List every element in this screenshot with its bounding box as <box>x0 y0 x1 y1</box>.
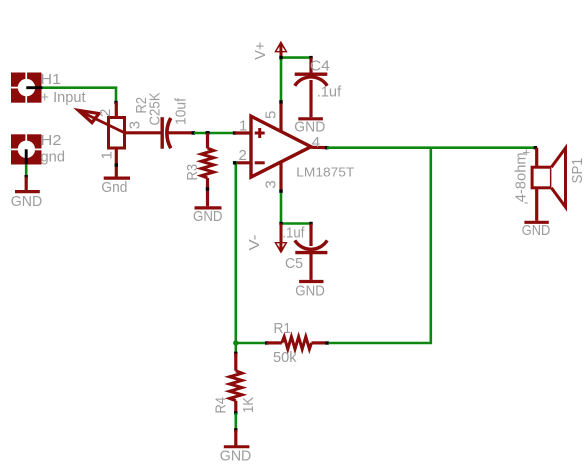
potentiometer R2 <box>78 103 162 177</box>
junction dot cap right <box>192 131 196 135</box>
junction dot pin5 <box>279 100 282 103</box>
junction dot C4 top <box>309 56 312 59</box>
capacitor C1 plates <box>162 117 192 149</box>
svg-text:C5: C5 <box>285 255 303 272</box>
svg-text:4: 4 <box>312 134 320 151</box>
svg-text:H2: H2 <box>41 132 62 149</box>
junction dot gnd stub <box>234 428 237 431</box>
junction dot V+ <box>279 56 282 59</box>
wire cap to R3 junction to op-amp pin1 <box>194 132 235 135</box>
feedback wire from output <box>329 148 431 343</box>
svg-text:GND: GND <box>220 448 252 465</box>
svg-text:10uf: 10uf <box>172 97 189 125</box>
ground symbol under pot (Gnd) <box>104 177 130 180</box>
junction dot op-amp pin1 <box>233 131 236 134</box>
svg-text:C4: C4 <box>310 57 330 74</box>
junction dot R4 bottom <box>234 411 237 414</box>
junction dot C5 top <box>309 222 312 225</box>
svg-text:2: 2 <box>97 109 114 117</box>
wire V+ to pin5 and C4 <box>281 58 311 102</box>
ground symbol under C5 <box>299 280 323 283</box>
junction dot R3 bottom <box>206 187 209 190</box>
wire R4 top <box>235 343 238 353</box>
ground symbol under R4 <box>224 430 250 447</box>
junction dot R1 right <box>325 341 329 344</box>
svg-text:.1uf: .1uf <box>317 84 342 101</box>
junction dot <box>25 175 28 178</box>
resistor R3 <box>201 133 213 206</box>
svg-text:R3: R3 <box>184 164 201 181</box>
svg-text:V-: V- <box>246 235 263 251</box>
speaker SP1 <box>532 148 565 221</box>
junction dot R1 left <box>265 341 269 344</box>
svg-text:Gnd: Gnd <box>101 179 127 196</box>
resistor R4 <box>230 353 242 413</box>
junction dot op-amp pin4 <box>325 146 328 149</box>
svg-text:+ Input: + Input <box>41 89 87 106</box>
ground symbol under R3 <box>195 206 222 209</box>
junction dot V- corner <box>279 222 282 225</box>
svg-text:1: 1 <box>239 118 247 135</box>
svg-text:50k: 50k <box>273 349 297 366</box>
svg-text:gnd: gnd <box>41 149 66 166</box>
ground symbol under H2 <box>15 177 40 192</box>
junction dot at R3 top <box>206 131 210 135</box>
connector H1 pad <box>11 73 42 103</box>
svg-text:1K: 1K <box>240 397 257 413</box>
junction dot R4 top <box>234 352 237 355</box>
svg-text:LM1875T: LM1875T <box>296 164 354 179</box>
svg-text:V+: V+ <box>252 42 269 60</box>
wire pin2 down to feedback node <box>233 163 265 343</box>
svg-text:GND: GND <box>522 222 551 239</box>
wire pin3 to V- and C5 <box>281 191 311 223</box>
junction dot pin3 <box>279 190 282 193</box>
svg-text:H1: H1 <box>41 71 62 88</box>
supply V+ symbol <box>274 41 287 58</box>
junction dot speaker top <box>534 146 537 149</box>
svg-text:.1uf: .1uf <box>282 225 305 242</box>
junction dot pot pin1 <box>115 163 118 166</box>
ground symbol under SP1 <box>524 221 548 224</box>
wire H1 to pot R2 <box>43 88 116 102</box>
svg-text:3: 3 <box>263 180 280 188</box>
svg-text:2: 2 <box>239 147 247 164</box>
wire H2 to ground <box>25 164 28 176</box>
svg-text:GND: GND <box>295 282 325 299</box>
svg-text:SP1: SP1 <box>569 158 586 184</box>
svg-text:1: 1 <box>99 151 116 159</box>
svg-text:4-8ohm: 4-8ohm <box>512 152 529 202</box>
svg-text:3: 3 <box>126 121 143 129</box>
op-amp U1 LM1875T <box>235 102 327 191</box>
output wire to speaker <box>327 146 536 149</box>
ground symbol under C4 <box>298 117 323 120</box>
svg-text:GND: GND <box>294 119 325 136</box>
svg-text:R4: R4 <box>213 397 230 414</box>
svg-text:5: 5 <box>263 111 280 119</box>
svg-text:GND: GND <box>193 208 223 225</box>
junction dot op-amp pin2 <box>233 161 236 164</box>
svg-text:R1: R1 <box>274 320 292 337</box>
H1 pin line <box>26 86 42 89</box>
connector H2 pad <box>11 134 42 164</box>
wire R4 to ground <box>235 413 238 430</box>
supply V- symbol <box>274 224 287 254</box>
H2 pin line <box>25 149 28 164</box>
junction dot pin 2 of R2 <box>114 101 117 104</box>
resistor R1 <box>267 337 326 349</box>
junction disc feedback node <box>233 340 238 345</box>
svg-text:GND: GND <box>11 193 43 210</box>
capacitor C4 <box>295 58 328 118</box>
capacitor C5 <box>295 224 328 280</box>
